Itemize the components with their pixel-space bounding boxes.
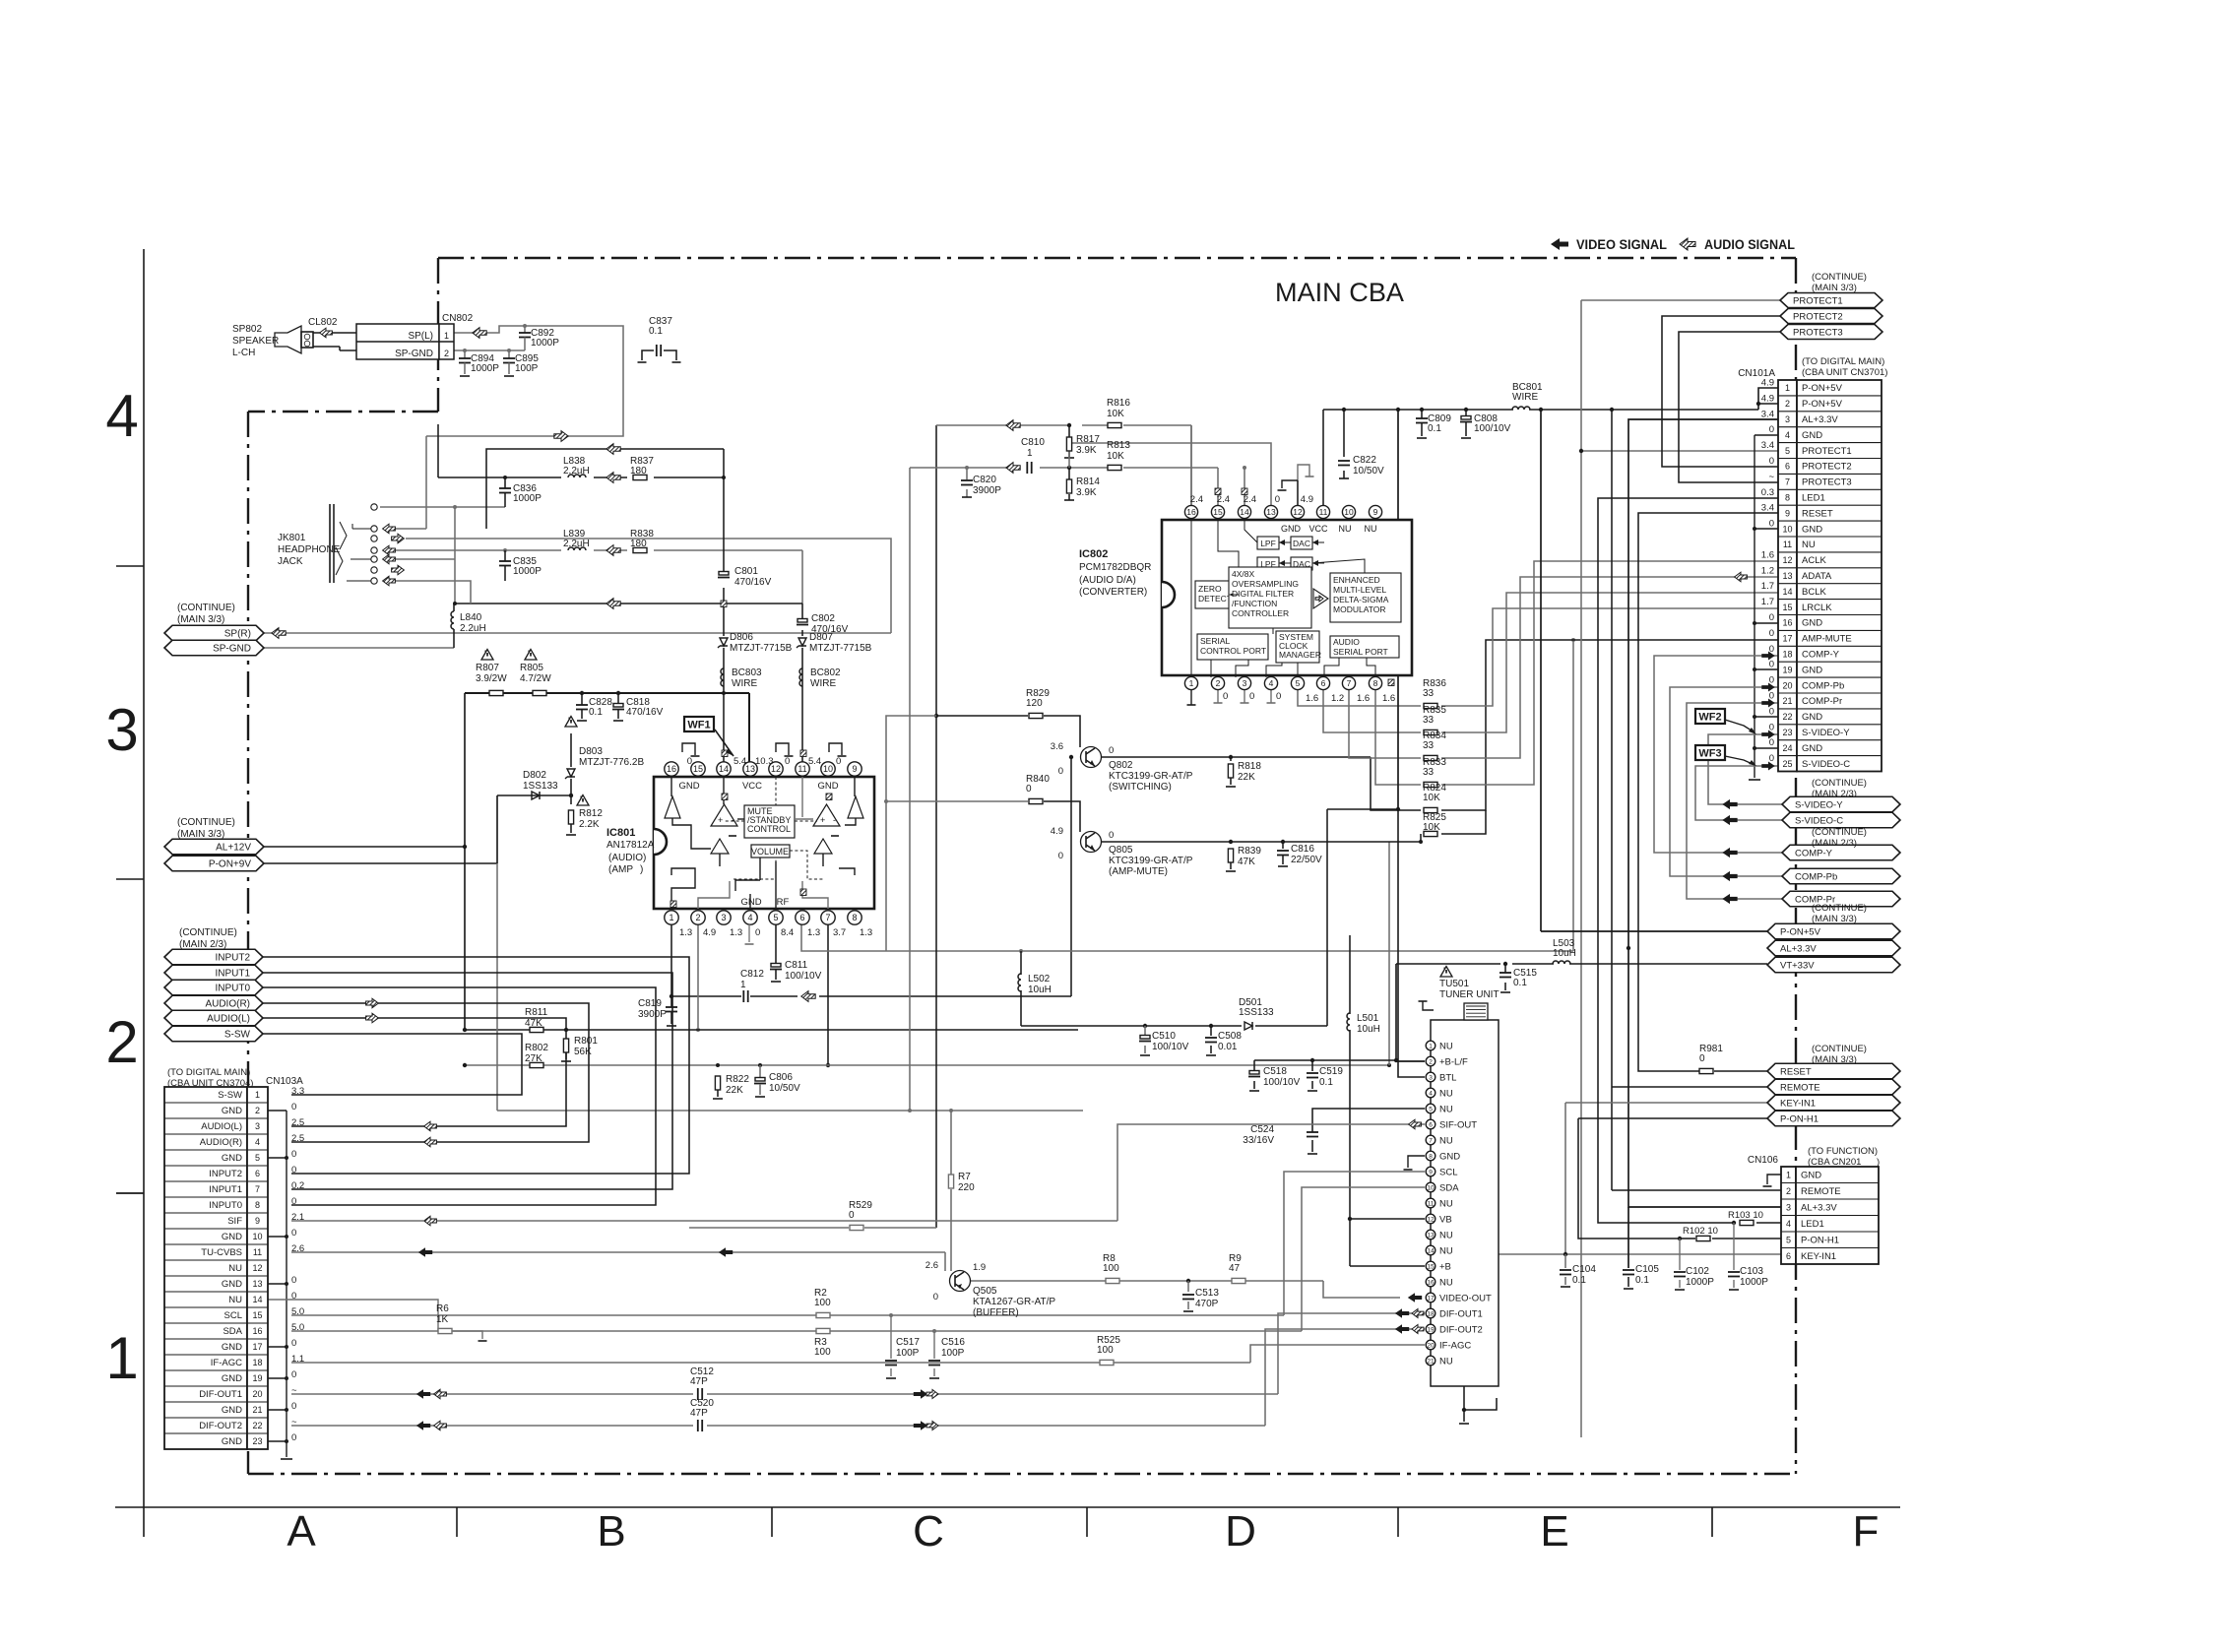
wire jack row to riser (black) bbox=[486, 449, 724, 529]
svg-text:(MAIN 3/3): (MAIN 3/3) bbox=[1812, 283, 1857, 293]
svg-text:1.3: 1.3 bbox=[807, 927, 820, 938]
svg-text:1.6: 1.6 bbox=[1761, 549, 1774, 560]
svg-text:5.0: 5.0 bbox=[291, 1322, 304, 1333]
resistor R822 22K bbox=[713, 1074, 749, 1099]
video arrows mid-bottom bbox=[914, 1389, 938, 1430]
svg-text:0: 0 bbox=[291, 1275, 296, 1286]
wire R836 to LRCLK row bbox=[1441, 608, 1778, 706]
svg-text:(AUDIO D/A): (AUDIO D/A) bbox=[1079, 575, 1136, 586]
svg-text:S-VIDEO-Y: S-VIDEO-Y bbox=[1795, 799, 1843, 810]
svg-text:VB: VB bbox=[1439, 1214, 1452, 1225]
resistor R834 33 bbox=[1423, 731, 1446, 761]
svg-text:BCLK: BCLK bbox=[1802, 587, 1826, 598]
svg-text:D806: D806 bbox=[730, 632, 753, 643]
svg-text:DIF-OUT2: DIF-OUT2 bbox=[1439, 1324, 1483, 1335]
svg-text:0: 0 bbox=[291, 1149, 296, 1160]
svg-text:11: 11 bbox=[253, 1247, 262, 1257]
svg-text:100/10V: 100/10V bbox=[1263, 1077, 1301, 1088]
svg-text:SP802: SP802 bbox=[232, 324, 262, 335]
zener D806 MTZJT-7715B bbox=[718, 632, 793, 654]
svg-text:JACK: JACK bbox=[278, 556, 303, 567]
tuner DIF-OUT1 arrows bbox=[1395, 1308, 1424, 1318]
wire DIF-OUT2 row bbox=[291, 1329, 1425, 1426]
svg-text:REMOTE: REMOTE bbox=[1801, 1186, 1841, 1197]
svg-text:5: 5 bbox=[773, 913, 778, 922]
wire REMOTE vertical x1637 bbox=[1612, 410, 1781, 1190]
DAC IC802 PCM1782DBQR body bbox=[1162, 520, 1412, 675]
svg-text:GND: GND bbox=[222, 1279, 242, 1290]
wire Q802 to R824 bbox=[1371, 640, 1778, 810]
svg-text:C806: C806 bbox=[769, 1072, 793, 1083]
svg-text:0: 0 bbox=[1769, 660, 1774, 670]
wire bottom rail y1128 bbox=[497, 863, 1083, 1111]
svg-text:2: 2 bbox=[695, 913, 700, 922]
svg-text:10K: 10K bbox=[1107, 409, 1124, 419]
svg-text:1.6: 1.6 bbox=[1357, 693, 1370, 704]
flag KEY-IN1 net bbox=[1767, 1095, 1900, 1111]
svg-text:1: 1 bbox=[1027, 448, 1033, 459]
svg-text:GND: GND bbox=[1439, 1151, 1460, 1162]
resistor R811 47K bbox=[525, 1007, 548, 1033]
grid row label 2 bbox=[105, 1009, 138, 1075]
svg-text:NU: NU bbox=[1439, 1135, 1453, 1146]
svg-text:3: 3 bbox=[255, 1121, 260, 1131]
svg-text:(CONTINUE): (CONTINUE) bbox=[179, 927, 237, 938]
svg-text:Q802: Q802 bbox=[1109, 760, 1133, 771]
svg-text:120: 120 bbox=[1026, 698, 1043, 709]
flag AUDIO(L) bbox=[164, 1010, 378, 1026]
svg-text:20: 20 bbox=[1782, 680, 1792, 690]
svg-text:12: 12 bbox=[1427, 1216, 1435, 1223]
svg-text:VCC: VCC bbox=[742, 781, 762, 792]
svg-text:10: 10 bbox=[1782, 524, 1792, 534]
capacitor C518 100/10V bbox=[1248, 1066, 1301, 1088]
svg-text:100: 100 bbox=[1097, 1345, 1114, 1356]
wire SDA row bbox=[291, 1187, 1425, 1333]
svg-text:OVERSAMPLING: OVERSAMPLING bbox=[1232, 579, 1299, 589]
svg-text:AUDIO(L): AUDIO(L) bbox=[201, 1121, 242, 1132]
CN103A pin voltages bbox=[291, 1086, 304, 1443]
svg-text:P-ON+9V: P-ON+9V bbox=[209, 859, 251, 870]
svg-text:GND: GND bbox=[1802, 743, 1822, 754]
svg-text:IC801: IC801 bbox=[606, 827, 635, 839]
svg-text:33/16V: 33/16V bbox=[1243, 1135, 1274, 1146]
svg-text:0: 0 bbox=[291, 1228, 296, 1239]
svg-text:NU: NU bbox=[1802, 540, 1816, 550]
capacitor C819 3900P bbox=[638, 996, 677, 1026]
svg-text:17: 17 bbox=[1782, 634, 1792, 644]
svg-text:17: 17 bbox=[252, 1342, 262, 1352]
svg-text:SP-GND: SP-GND bbox=[395, 349, 433, 359]
inductor L502 10uH bbox=[1018, 974, 1052, 995]
CN103A header labels bbox=[167, 1067, 303, 1089]
svg-text:VIDEO-OUT: VIDEO-OUT bbox=[1439, 1293, 1492, 1303]
svg-text:1SS133: 1SS133 bbox=[523, 781, 558, 792]
wire COMP-Pb link bbox=[1670, 687, 1782, 876]
capacitor C520 47P bbox=[690, 1398, 714, 1431]
resistor R840 0 bbox=[1026, 774, 1050, 804]
capacitor C524 33/16V bbox=[1243, 1124, 1318, 1146]
wire R817 stub bbox=[1064, 425, 1074, 458]
svg-text:25: 25 bbox=[1782, 759, 1792, 769]
svg-text:INPUT0: INPUT0 bbox=[215, 984, 250, 994]
svg-text:5.0: 5.0 bbox=[291, 1306, 304, 1317]
wire C508 stub bbox=[1206, 1026, 1216, 1055]
svg-text:11: 11 bbox=[1783, 540, 1792, 549]
svg-text:HEADPHONE: HEADPHONE bbox=[278, 544, 341, 555]
svg-text:5: 5 bbox=[1786, 1235, 1791, 1244]
svg-text:MTZJT-776.2B: MTZJT-776.2B bbox=[579, 757, 644, 768]
svg-text:2.2uH: 2.2uH bbox=[460, 623, 486, 634]
wire VCC rail y704 bbox=[463, 691, 749, 849]
svg-text:1.3: 1.3 bbox=[860, 927, 872, 938]
capacitor C508 0.01 bbox=[1205, 1031, 1242, 1052]
svg-text:0.01: 0.01 bbox=[1218, 1042, 1238, 1052]
svg-text:IF-AGC: IF-AGC bbox=[211, 1358, 242, 1368]
svg-text:5: 5 bbox=[1785, 446, 1790, 456]
wire IC802 pin1 stub bbox=[1187, 690, 1196, 705]
svg-text:0.1: 0.1 bbox=[649, 326, 663, 337]
flag PROTECT3 bbox=[1780, 325, 1882, 340]
svg-text:KTC3199-GR-AT/P: KTC3199-GR-AT/P bbox=[1109, 856, 1193, 866]
svg-text:0: 0 bbox=[1699, 1053, 1705, 1064]
svg-text:14: 14 bbox=[1427, 1247, 1435, 1254]
svg-text:1.7: 1.7 bbox=[1761, 581, 1774, 592]
svg-text:ENHANCED: ENHANCED bbox=[1333, 575, 1380, 585]
IC801 top pins bbox=[665, 762, 861, 776]
svg-text:1.3: 1.3 bbox=[679, 927, 692, 938]
wire L501 vertical bbox=[1348, 935, 1425, 1266]
svg-text:WIRE: WIRE bbox=[732, 678, 757, 689]
svg-text:2.1: 2.1 bbox=[291, 1212, 304, 1223]
wire AL+3.3V vertical x1654 bbox=[1627, 419, 1781, 1207]
wire PROTECT2 loop bbox=[1662, 316, 1780, 467]
svg-text:0: 0 bbox=[1769, 456, 1774, 467]
wire mid bus vertical x924 bbox=[908, 468, 912, 1112]
resistor R102 10 bbox=[1683, 1226, 1718, 1241]
capacitor C516 100P bbox=[928, 1337, 965, 1366]
svg-text:LRCLK: LRCLK bbox=[1802, 603, 1832, 613]
svg-text:DIF-OUT1: DIF-OUT1 bbox=[1439, 1308, 1483, 1319]
wire C105 stub bbox=[1624, 1207, 1633, 1289]
svg-text:6: 6 bbox=[1321, 678, 1326, 688]
svg-text:47P: 47P bbox=[690, 1376, 708, 1387]
svg-text:(AMP-MUTE): (AMP-MUTE) bbox=[1109, 866, 1168, 877]
svg-text:F: F bbox=[1853, 1507, 1880, 1556]
wire D806/BC803 vertical x735 bbox=[722, 449, 726, 764]
svg-text:6: 6 bbox=[1429, 1121, 1433, 1128]
resistor R835 33 bbox=[1423, 705, 1446, 735]
MAIN CBA boundary (dash-dot) bbox=[248, 258, 1796, 1474]
connector CN802 bbox=[356, 313, 474, 359]
svg-text:14: 14 bbox=[252, 1295, 262, 1304]
svg-text:100/10V: 100/10V bbox=[1152, 1042, 1189, 1052]
svg-text:GND: GND bbox=[1281, 524, 1302, 534]
svg-text:GND: GND bbox=[222, 1436, 242, 1447]
flag PROTECT1 continue header bbox=[1812, 272, 1867, 293]
svg-text:+: + bbox=[820, 815, 825, 825]
inductor L501 10uH bbox=[1347, 1013, 1380, 1035]
svg-text:DAC: DAC bbox=[1293, 539, 1310, 548]
svg-text:S-VIDEO-C: S-VIDEO-C bbox=[1795, 815, 1843, 826]
svg-text:SCL: SCL bbox=[1439, 1167, 1457, 1177]
svg-text:100/10V: 100/10V bbox=[785, 971, 822, 982]
capacitor C515 0.1 bbox=[1499, 968, 1537, 988]
svg-text:13: 13 bbox=[745, 764, 755, 774]
wire BC801 net y416 bbox=[1323, 388, 1778, 505]
svg-text:0: 0 bbox=[785, 756, 790, 767]
svg-text:11: 11 bbox=[1428, 1200, 1435, 1207]
wire R802 riser to Q805 row bbox=[1388, 842, 1390, 1065]
audio arrows at jack bbox=[383, 524, 405, 586]
svg-text:0.1: 0.1 bbox=[1513, 978, 1527, 988]
capacitor C801 470/16V bbox=[718, 566, 772, 607]
IC801 internal labels bbox=[678, 781, 838, 908]
svg-text:C519: C519 bbox=[1319, 1066, 1343, 1077]
svg-text:SERIAL: SERIAL bbox=[1200, 636, 1231, 646]
svg-text:2.4: 2.4 bbox=[1244, 494, 1256, 505]
capacitor C103 1000P bbox=[1728, 1266, 1768, 1288]
svg-text:4.7/2W: 4.7/2W bbox=[520, 673, 551, 684]
svg-text:22: 22 bbox=[252, 1421, 262, 1430]
svg-text:15: 15 bbox=[693, 764, 703, 774]
svg-text:P-ON+5V: P-ON+5V bbox=[1802, 399, 1843, 410]
wire S-VIDEO-C link bbox=[1695, 766, 1782, 820]
svg-text:4: 4 bbox=[255, 1137, 260, 1147]
svg-text:MTZJT-7715B: MTZJT-7715B bbox=[809, 643, 872, 654]
svg-text:NU: NU bbox=[1439, 1277, 1453, 1288]
svg-text:12: 12 bbox=[252, 1263, 262, 1273]
resistor R839 47K bbox=[1226, 846, 1261, 871]
IC802 power arrows above pins bbox=[1215, 481, 1247, 495]
svg-text:R839: R839 bbox=[1238, 846, 1261, 857]
svg-text:1.6: 1.6 bbox=[1382, 693, 1395, 704]
svg-text:3: 3 bbox=[1785, 414, 1790, 424]
wire IC801 pin7 down bbox=[826, 924, 830, 1067]
wire L502 vertical bbox=[1020, 951, 1022, 1026]
tuner labels bbox=[1439, 979, 1499, 1000]
inductor L838 2.2uH bbox=[563, 456, 590, 477]
svg-text:C: C bbox=[913, 1507, 944, 1556]
svg-text:22/50V: 22/50V bbox=[1291, 855, 1322, 865]
svg-text:0: 0 bbox=[291, 1196, 296, 1207]
svg-text:NU: NU bbox=[1439, 1104, 1453, 1114]
wire COMP-Pr link bbox=[1687, 703, 1782, 899]
IC802 system clock manager box bbox=[1276, 631, 1321, 663]
svg-text:24: 24 bbox=[1782, 743, 1792, 753]
svg-text:CONTROL PORT: CONTROL PORT bbox=[1200, 646, 1266, 656]
IC802 top pins bbox=[1184, 505, 1381, 518]
power arrow mid bbox=[1388, 672, 1394, 686]
svg-text:(CONTINUE): (CONTINUE) bbox=[177, 817, 235, 828]
border frame bottom rule bbox=[115, 1507, 1900, 1537]
svg-text:C822: C822 bbox=[1353, 455, 1376, 466]
wire P-ON-H1 link bbox=[1578, 1118, 1781, 1240]
svg-text:SERIAL PORT: SERIAL PORT bbox=[1333, 647, 1388, 657]
resistor R3 100 bbox=[814, 1328, 831, 1358]
IC801 internal amplifiers bbox=[665, 796, 863, 854]
svg-text:16: 16 bbox=[667, 764, 676, 774]
CN101A pin voltages bbox=[1761, 378, 1775, 765]
svg-text:AL+12V: AL+12V bbox=[216, 843, 251, 854]
connector CN103A bbox=[164, 1087, 268, 1449]
svg-text:8: 8 bbox=[255, 1200, 260, 1210]
svg-text:13: 13 bbox=[1427, 1232, 1435, 1239]
svg-text:3.3: 3.3 bbox=[291, 1086, 304, 1097]
flag S-VIDEO-C out bbox=[1722, 812, 1900, 828]
flag PROTECT1 bbox=[1780, 293, 1882, 308]
wire mid bus vertical x951 bbox=[934, 425, 938, 1228]
svg-text:19: 19 bbox=[1427, 1326, 1435, 1333]
svg-text:100P: 100P bbox=[941, 1348, 965, 1359]
svg-text:11: 11 bbox=[1319, 507, 1328, 517]
svg-text:): ) bbox=[1877, 1157, 1880, 1168]
resistor R6 1K bbox=[436, 1303, 452, 1334]
wire Q802 collector row y769 bbox=[1069, 755, 1371, 761]
flag COMP-Pb out bbox=[1722, 868, 1900, 884]
svg-text:100P: 100P bbox=[515, 363, 539, 374]
svg-text:2.2uH: 2.2uH bbox=[563, 466, 590, 477]
svg-text:15: 15 bbox=[252, 1310, 262, 1320]
wire IC802 pin5 to R836 bbox=[1298, 690, 1421, 706]
svg-text:2: 2 bbox=[1216, 678, 1221, 688]
wire R529 row bbox=[689, 1227, 936, 1229]
resistor R103 10 bbox=[1728, 1210, 1763, 1226]
capacitor C809 0.1 bbox=[1416, 410, 1451, 438]
svg-text:1000P: 1000P bbox=[1686, 1277, 1714, 1288]
svg-text:100: 100 bbox=[814, 1298, 831, 1308]
capacitor C802 470/16V bbox=[797, 613, 849, 635]
svg-text:SIF: SIF bbox=[227, 1216, 242, 1227]
svg-text:9: 9 bbox=[1429, 1169, 1433, 1175]
svg-text:0: 0 bbox=[1058, 851, 1063, 861]
svg-text:(MAIN 3/3): (MAIN 3/3) bbox=[1812, 914, 1857, 924]
svg-text:(CONTINUE): (CONTINUE) bbox=[1812, 827, 1867, 838]
wire IC801 pin5 to C811 bbox=[775, 924, 777, 963]
svg-text:16: 16 bbox=[1186, 507, 1196, 517]
svg-text:1.6: 1.6 bbox=[1306, 693, 1318, 704]
svg-text:D803: D803 bbox=[579, 746, 603, 757]
grid column label A bbox=[287, 1507, 316, 1556]
svg-text:TUNER UNIT: TUNER UNIT bbox=[1439, 989, 1499, 1000]
svg-text:0: 0 bbox=[291, 1338, 296, 1349]
svg-text:C820: C820 bbox=[973, 475, 996, 485]
svg-text:KTA1267-GR-AT/P: KTA1267-GR-AT/P bbox=[973, 1297, 1055, 1307]
svg-text:C517: C517 bbox=[896, 1337, 920, 1348]
svg-text:SCL: SCL bbox=[224, 1310, 242, 1321]
resistor R818 22K bbox=[1226, 761, 1261, 787]
svg-text:~: ~ bbox=[1768, 472, 1774, 482]
resistor R9 47 bbox=[1229, 1253, 1245, 1284]
svg-text:0.1: 0.1 bbox=[1319, 1077, 1333, 1088]
tuner DIF-OUT2 arrows bbox=[1395, 1324, 1424, 1334]
svg-text:DELTA-SIGMA: DELTA-SIGMA bbox=[1333, 595, 1389, 604]
svg-text:(AUDIO): (AUDIO) bbox=[608, 853, 646, 863]
wire C104 stub bbox=[1561, 1254, 1570, 1287]
CN106 header labels bbox=[1748, 1146, 1880, 1168]
svg-text:(CONTINUE): (CONTINUE) bbox=[177, 603, 235, 613]
wire SCL row bbox=[291, 1172, 1425, 1317]
svg-text:NU: NU bbox=[1339, 524, 1352, 534]
resistor R812 2.2K bbox=[566, 795, 603, 836]
CN101A input arrows bbox=[1761, 652, 1775, 771]
svg-text:VT+33V: VT+33V bbox=[1780, 960, 1815, 971]
svg-text:C810: C810 bbox=[1021, 437, 1045, 448]
flag S-SW bbox=[164, 1026, 263, 1042]
svg-text:PROTECT2: PROTECT2 bbox=[1802, 462, 1852, 473]
svg-text:COMP-Pr: COMP-Pr bbox=[1802, 696, 1842, 707]
IC802 delta-sigma modulator box bbox=[1330, 573, 1401, 622]
svg-text:R6: R6 bbox=[436, 1303, 449, 1314]
resistor R838 180 bbox=[630, 529, 654, 553]
wire jumper BC802 bbox=[799, 667, 841, 689]
waveform label WF3 bbox=[1695, 745, 1756, 766]
wire LED1 link bbox=[1598, 498, 1781, 1225]
wire C812 row y1012 bbox=[671, 757, 1071, 996]
wire C516 stub bbox=[929, 1331, 939, 1378]
svg-text:(CONTINUE): (CONTINUE) bbox=[1812, 1044, 1867, 1054]
wire DIF-OUT1 row bbox=[291, 1313, 1425, 1394]
svg-text:13: 13 bbox=[1266, 507, 1276, 517]
svg-text:180: 180 bbox=[630, 539, 647, 549]
svg-text:0: 0 bbox=[687, 756, 692, 767]
audio arrow at CN802 pin1 bbox=[473, 328, 486, 339]
wire SIF-OUT row bbox=[291, 1124, 1425, 1221]
svg-text:8: 8 bbox=[1429, 1153, 1433, 1160]
flag P-ON+9V bbox=[164, 856, 264, 871]
svg-text:GND: GND bbox=[740, 897, 761, 908]
svg-text:SPEAKER: SPEAKER bbox=[232, 336, 279, 347]
svg-text:15: 15 bbox=[1213, 507, 1223, 517]
transistor Q505 KTA1267 buffer bbox=[925, 1260, 1056, 1318]
svg-text:Q805: Q805 bbox=[1109, 845, 1133, 856]
wire IC802 pin12 gnd stub bbox=[1298, 465, 1314, 505]
grid column label F bbox=[1853, 1507, 1880, 1556]
svg-text:180: 180 bbox=[630, 466, 647, 477]
svg-text:GND: GND bbox=[1802, 665, 1822, 675]
svg-text:0.3: 0.3 bbox=[1761, 487, 1774, 498]
wire R816 row y432 bbox=[936, 423, 1191, 505]
capacitor C513 470P bbox=[1182, 1288, 1219, 1309]
svg-text:1: 1 bbox=[740, 980, 746, 990]
svg-text:C811: C811 bbox=[785, 960, 808, 971]
resistor R837 180 bbox=[630, 456, 654, 480]
svg-text:2: 2 bbox=[1429, 1058, 1433, 1065]
wire INPUT2 flag to CN103A row6 bbox=[263, 957, 689, 1174]
svg-text:0: 0 bbox=[849, 1210, 855, 1221]
border frame left rule bbox=[116, 249, 144, 1537]
svg-text:6: 6 bbox=[799, 913, 804, 922]
audio arrow R813 row bbox=[1006, 463, 1020, 474]
svg-text:NU: NU bbox=[228, 1295, 242, 1305]
wire IC801 pin6 mute row y966 (gray) bbox=[801, 638, 1575, 953]
flag SP-GND bbox=[164, 640, 264, 656]
svg-text:22: 22 bbox=[1782, 712, 1792, 722]
wire riser x433 bbox=[395, 436, 471, 604]
wire RESET link bbox=[1638, 513, 1778, 1071]
resistor R836 33 bbox=[1423, 678, 1446, 709]
svg-text:5.4: 5.4 bbox=[808, 756, 821, 767]
svg-text:L840: L840 bbox=[460, 612, 482, 623]
svg-text:S-SW: S-SW bbox=[224, 1030, 251, 1041]
svg-text:(BUFFER): (BUFFER) bbox=[973, 1307, 1019, 1318]
wire C822 stub bbox=[1339, 410, 1349, 478]
svg-text:19: 19 bbox=[1782, 665, 1792, 674]
wire R835 to BCLK row bbox=[1441, 593, 1778, 732]
svg-text:3: 3 bbox=[105, 697, 138, 763]
capacitor C519 0.1 bbox=[1307, 1066, 1343, 1088]
svg-text:C518: C518 bbox=[1263, 1066, 1287, 1077]
